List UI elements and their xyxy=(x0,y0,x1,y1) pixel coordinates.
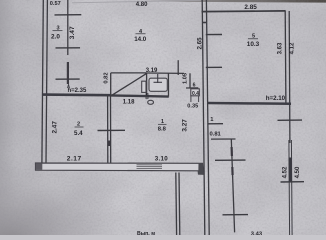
fixture: faucet mark xyxy=(154,74,163,83)
wall: left outer wall line A xyxy=(42,0,43,164)
tick: cross y215 xyxy=(223,214,249,216)
dim line: vertical x231-234 xyxy=(231,139,234,232)
wall: rooms 4|5 double wall line A xyxy=(202,0,205,235)
svg-text:5.4: 5.4 xyxy=(74,130,83,137)
wall: dashed lower part of x68 line xyxy=(67,62,69,84)
wall: room5 right wall x285.5 xyxy=(284,11,287,104)
svg-text:4.80: 4.80 xyxy=(136,2,148,8)
wall: rooms 2|1 divider line A xyxy=(107,95,109,164)
svg-text:3.10: 3.10 xyxy=(155,155,169,162)
svg-text:0.6: 0.6 xyxy=(144,92,149,99)
wall: horizontal wall y95 rooms 2/3 top xyxy=(43,93,111,96)
tick: "0.81" segment y139 xyxy=(211,138,236,140)
wall: stub in room4 x178 xyxy=(177,60,179,75)
porch: right vertical line x290 upper xyxy=(289,104,291,143)
wall: bathroom top wall y73 to x184 xyxy=(147,72,184,74)
tick: y182 on porch line xyxy=(281,181,305,183)
tick: 2.65 lower y67.4 xyxy=(206,66,222,68)
porch: dark thick segment xyxy=(289,158,292,182)
wall: bottom wall left dark cap xyxy=(36,163,43,170)
svg-text:3.43: 3.43 xyxy=(251,231,263,235)
svg-text:8.8: 8.8 xyxy=(158,126,167,132)
wall: bottom wall outline xyxy=(36,163,204,174)
wall: rooms 2|1 divider line B xyxy=(110,95,112,164)
porch: doubled line A lower xyxy=(288,140,291,235)
svg-text:3.63: 3.63 xyxy=(277,42,283,54)
tick: y120 on porch line xyxy=(278,119,303,121)
svg-text:Вып. м: Вып. м xyxy=(137,231,155,235)
svg-text:h=2.10: h=2.10 xyxy=(266,95,286,102)
niche: 0.4 box xyxy=(191,89,200,96)
svg-text:4.50: 4.50 xyxy=(295,166,301,178)
wall: room3 top wall xyxy=(55,14,82,16)
svg-text:h=2.35: h=2.35 xyxy=(68,88,88,94)
svg-text:6: 6 xyxy=(193,82,196,88)
room5 fraction bar xyxy=(248,38,258,40)
room2 fraction bar xyxy=(75,126,84,128)
bottom outer wall band xyxy=(36,163,204,174)
svg-text:2.17: 2.17 xyxy=(67,156,82,163)
svg-text:2.65: 2.65 xyxy=(197,37,204,50)
arrow before h=2.35 xyxy=(68,85,70,89)
dim line: dark segments on x231 line xyxy=(231,147,233,156)
wall: bathroom bottom wall y96 xyxy=(111,95,169,96)
below-wall double line A x176 xyxy=(175,173,178,236)
svg-text:3.47: 3.47 xyxy=(69,26,76,39)
svg-text:2.85: 2.85 xyxy=(244,4,257,11)
porch: doubled line B lower xyxy=(290,140,293,235)
svg-text:0.4: 0.4 xyxy=(192,91,199,97)
stair diagonal xyxy=(111,74,146,96)
wall: rung in 4|5 wall y22.5 xyxy=(202,22,206,24)
fixtures xyxy=(142,78,168,104)
svg-text:3.19: 3.19 xyxy=(146,68,158,74)
svg-text:1.05: 1.05 xyxy=(182,73,188,84)
wall: tick at y79 left column xyxy=(56,78,80,80)
stair right edge xyxy=(146,73,148,96)
fixture: sink square xyxy=(149,78,167,91)
wall: hatch segment x136-162 xyxy=(137,165,163,169)
room4 fraction bar xyxy=(136,33,146,35)
wall: rooms 4|5 double wall line B xyxy=(206,0,209,235)
niche: small verticals below box xyxy=(191,96,199,102)
below-wall double line B x179.5 xyxy=(178,173,181,236)
wall: door tick across divider y130 xyxy=(98,129,126,131)
wall: dark fill inside divider xyxy=(108,141,111,147)
room3 fraction bar xyxy=(53,30,63,32)
svg-text:2.47: 2.47 xyxy=(52,121,59,134)
wall: room3 bottom wall tick xyxy=(56,47,81,49)
wall: left outer wall line B xyxy=(46,0,47,164)
svg-text:0.81: 0.81 xyxy=(210,131,222,137)
wall: room5 top wall y11.4 xyxy=(202,10,286,13)
svg-text:14.0: 14.0 xyxy=(134,36,147,43)
svg-text:0.57: 0.57 xyxy=(50,1,61,7)
room1 fraction bar xyxy=(158,123,167,125)
stair closet rectangle with diagonal: top edge xyxy=(111,72,147,74)
svg-text:10.3: 10.3 xyxy=(247,41,260,48)
fixture: narrow rect xyxy=(142,81,146,92)
svg-text:4.52: 4.52 xyxy=(283,166,289,178)
wall: outer dimension line x289.4 upper part xyxy=(288,11,291,104)
niche: left vertical x190 xyxy=(189,73,191,88)
svg-text:2.0: 2.0 xyxy=(51,33,60,40)
wall: h=2.10 wall y103.4 xyxy=(208,102,292,105)
tick: 2.65 upper y34.6 xyxy=(206,34,222,36)
wall: bathroom right wall x168.4 xyxy=(167,73,169,96)
fixture: toilet ellipse xyxy=(148,100,154,104)
top dark photo edge band xyxy=(140,0,326,3)
svg-text:0.35: 0.35 xyxy=(187,104,198,110)
bottom-left shadow smudge xyxy=(0,140,140,235)
faint top wall of room4 xyxy=(72,0,201,3)
tick: cross y160 xyxy=(215,159,246,161)
stair left edge xyxy=(110,73,112,96)
tick: "1" segment y123.8 xyxy=(208,123,223,125)
svg-text:0.82: 0.82 xyxy=(104,72,110,83)
svg-text:4.12: 4.12 xyxy=(290,42,296,54)
svg-text:1.18: 1.18 xyxy=(123,100,135,106)
svg-text:3.27: 3.27 xyxy=(181,119,188,132)
wall: room3 right wall / dim line x68 xyxy=(67,0,69,55)
niche: tick y88 xyxy=(186,87,198,89)
wall: bottom wall right dark corner xyxy=(198,163,203,174)
